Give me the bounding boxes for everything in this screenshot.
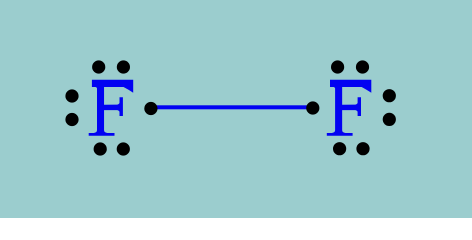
atom F (left fluorine letter) bbox=[89, 80, 133, 136]
lone pair dot: left F top-right bbox=[117, 60, 130, 73]
lone pair dot: right F bottom-right bbox=[356, 142, 369, 155]
lone pair dot: left F top-left bbox=[92, 60, 105, 73]
lone pair dot: left F bottom-right bbox=[117, 142, 130, 155]
lone pair dot: right F top-right bbox=[356, 60, 369, 73]
lone pair dot: left F left-lower bbox=[65, 113, 78, 126]
lone pair dot: right F right-lower bbox=[383, 113, 396, 126]
atom F (right fluorine letter) bbox=[327, 80, 372, 136]
lone pair dot: right F top-left bbox=[331, 60, 344, 73]
lone pair dot: left F left-upper bbox=[65, 89, 78, 102]
lone pair dot: right F right-upper bbox=[383, 89, 396, 102]
lone pair dot: left F bottom-left bbox=[94, 142, 107, 155]
bonding electron dot at right end of bond bbox=[306, 101, 319, 114]
bonding electron dot at left end of bond bbox=[144, 102, 157, 115]
bond F-F single bond line bbox=[150, 105, 313, 109]
lone pair dot: right F bottom-left bbox=[333, 142, 346, 155]
